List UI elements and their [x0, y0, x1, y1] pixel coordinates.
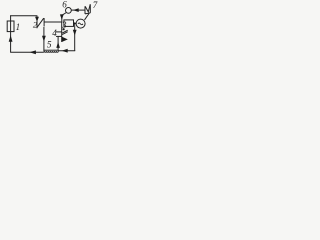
junction dot: [74, 22, 76, 24]
switch lever 2: [37, 18, 44, 27]
svg-text:2: 2: [33, 20, 38, 30]
fuse box 1: [7, 21, 14, 32]
wire x=37 down: [36, 16, 38, 28]
svg-text:4: 4: [52, 28, 57, 38]
svg-text:7: 7: [93, 0, 98, 10]
box 3: [64, 20, 74, 27]
wire x=44 down to coil: [43, 27, 45, 52]
diagonal wire to bell circle 6: [62, 13, 67, 16]
diagonal wire telephone to generator: [85, 14, 90, 20]
wire x=74.7 down right side: [74, 24, 76, 51]
bell circle 6: [66, 7, 72, 13]
contact lever slant lower: [62, 32, 67, 35]
sine symbol: [78, 23, 83, 25]
arrow up (x=58 wire): [56, 42, 60, 48]
arrow down (x=74.7 wire): [73, 30, 77, 36]
telephone 7 V notch: [85, 4, 90, 11]
telephone 7 bottom edge: [85, 13, 90, 14]
svg-text:3: 3: [61, 20, 67, 30]
contact lever slant upper: [62, 30, 67, 33]
wire bottom-right horizontal: [58, 50, 75, 52]
wire top-right horizontal: [71, 9, 85, 11]
switch contact bar: [43, 18, 45, 27]
arrow left (top-right wire): [73, 8, 79, 12]
wire x=58 down from plate to coil: [57, 36, 59, 50]
coil 5 turns: [44, 51, 58, 52]
wire left vertical through fuse: [10, 15, 12, 52]
wire x=61.8 junction up: [61, 14, 63, 22]
svg-text:6: 6: [62, 0, 67, 9]
svg-text:5: 5: [47, 41, 52, 51]
capacitor plate upper 4: [56, 31, 62, 33]
contact dot element 4: [63, 28, 65, 30]
wire middle horizontal: [44, 21, 62, 23]
arrow down (x=37 wire): [35, 17, 39, 22]
wire bottom-left horizontal: [10, 51, 44, 53]
capacitor plate lower 4: [56, 35, 62, 37]
arrow right (element 4): [62, 37, 68, 42]
arrow up (left wire): [9, 35, 13, 41]
arrow down (x=61.8 upper wire): [60, 14, 64, 19]
wire x=61.8 down to capacitor: [61, 22, 63, 43]
telephone 7 right bar: [89, 4, 91, 13]
wire box to generator: [74, 22, 77, 24]
arrow left (bottom-right wire): [62, 49, 68, 53]
arrow down (x=44 wire): [42, 36, 46, 42]
generator circle: [76, 19, 85, 28]
telephone 7 left bar: [84, 6, 86, 14]
svg-text:1: 1: [16, 22, 21, 32]
arrow left (bottom-left wire): [29, 50, 36, 54]
coil 5 top line: [44, 49, 58, 51]
wire top horizontal: [10, 15, 37, 17]
